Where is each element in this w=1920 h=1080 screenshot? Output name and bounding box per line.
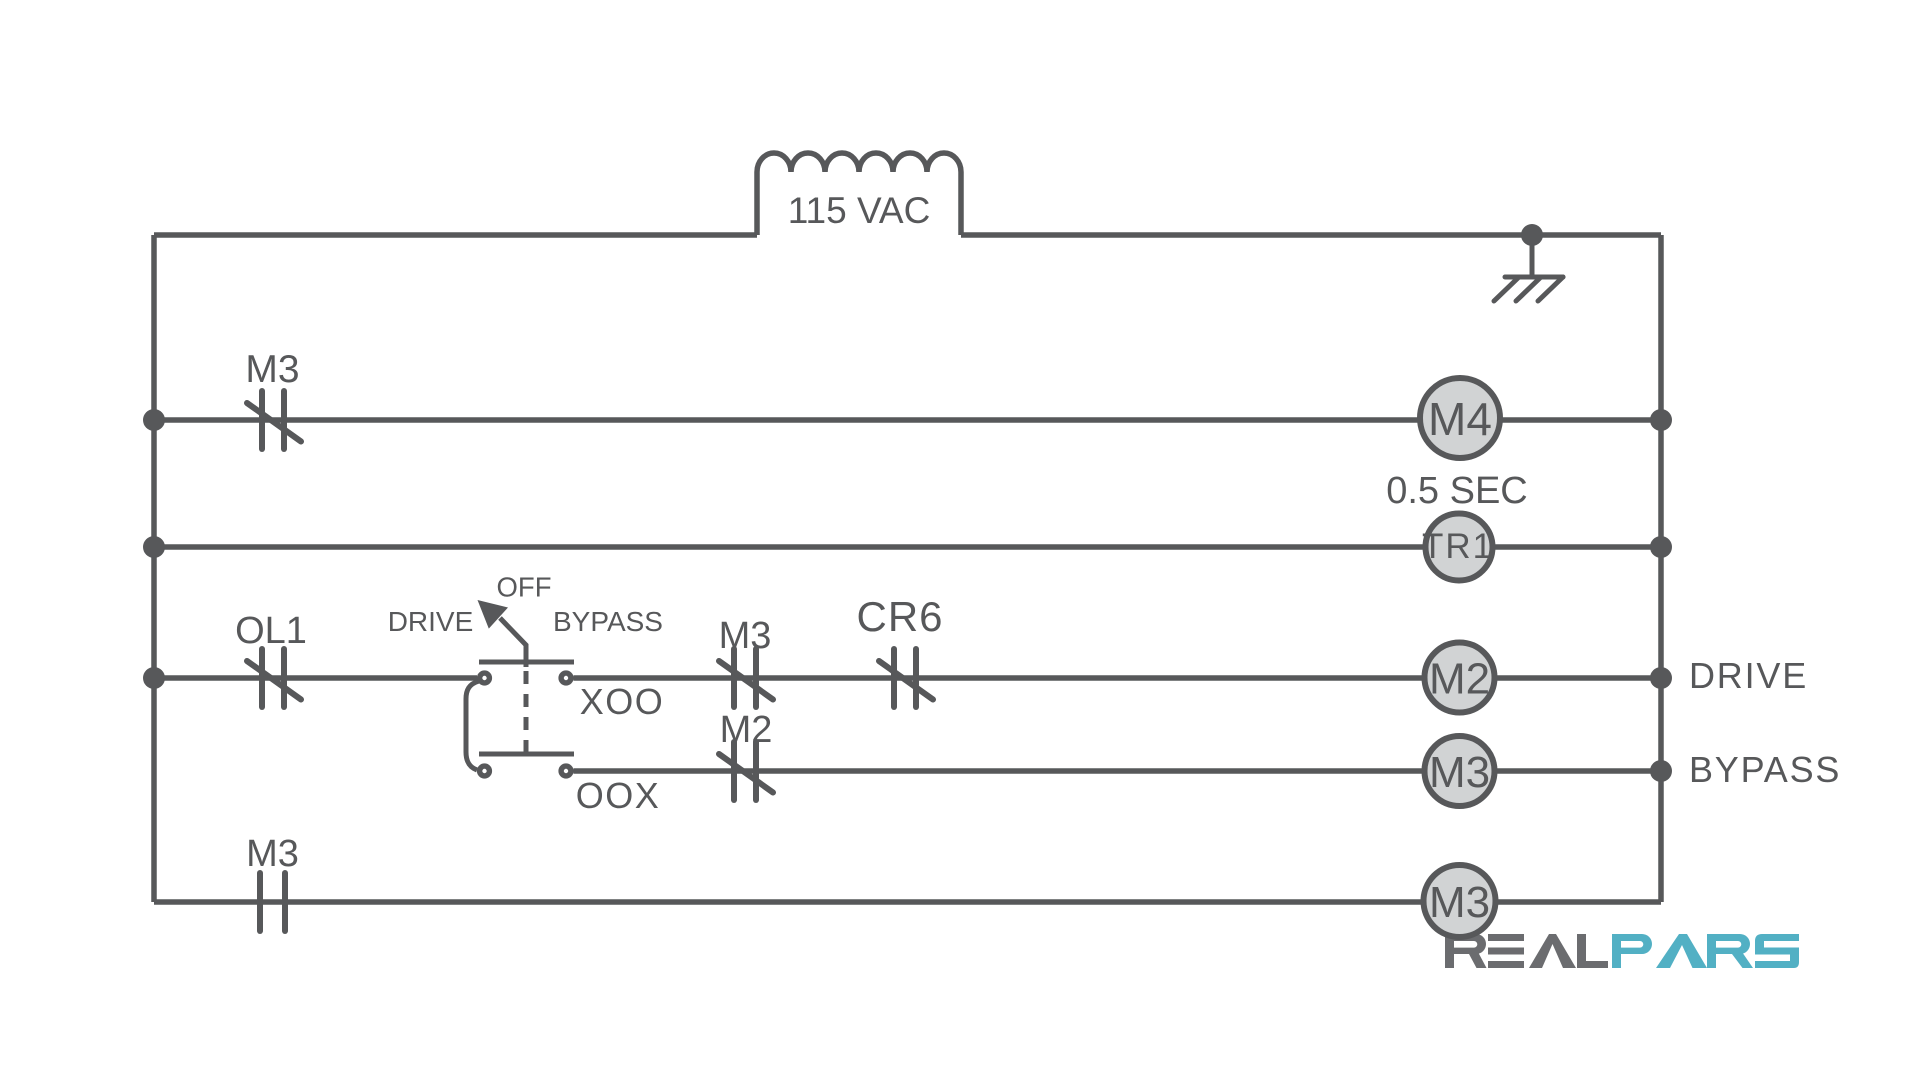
svg-text:M3: M3 <box>245 348 299 391</box>
svg-text:115 VAC: 115 VAC <box>788 190 931 231</box>
svg-text:CR6: CR6 <box>856 593 943 640</box>
svg-text:DRIVE: DRIVE <box>1689 655 1808 696</box>
svg-text:TR1: TR1 <box>1422 527 1494 566</box>
svg-text:M4: M4 <box>1428 393 1492 445</box>
svg-text:XOO: XOO <box>580 681 665 722</box>
svg-text:M3: M3 <box>719 615 772 657</box>
svg-text:BYPASS: BYPASS <box>1689 749 1841 790</box>
svg-text:OOX: OOX <box>576 775 661 816</box>
svg-text:M3: M3 <box>246 833 299 875</box>
svg-text:M2: M2 <box>720 709 773 751</box>
svg-text:M2: M2 <box>1429 655 1490 704</box>
svg-text:0.5 SEC: 0.5 SEC <box>1386 470 1528 512</box>
svg-text:M3: M3 <box>1429 878 1490 927</box>
svg-text:DRIVE: DRIVE <box>388 606 474 637</box>
svg-text:M3: M3 <box>1429 748 1490 797</box>
svg-text:OL1: OL1 <box>235 610 307 652</box>
svg-text:OFF: OFF <box>497 572 552 603</box>
svg-text:BYPASS: BYPASS <box>553 606 663 637</box>
